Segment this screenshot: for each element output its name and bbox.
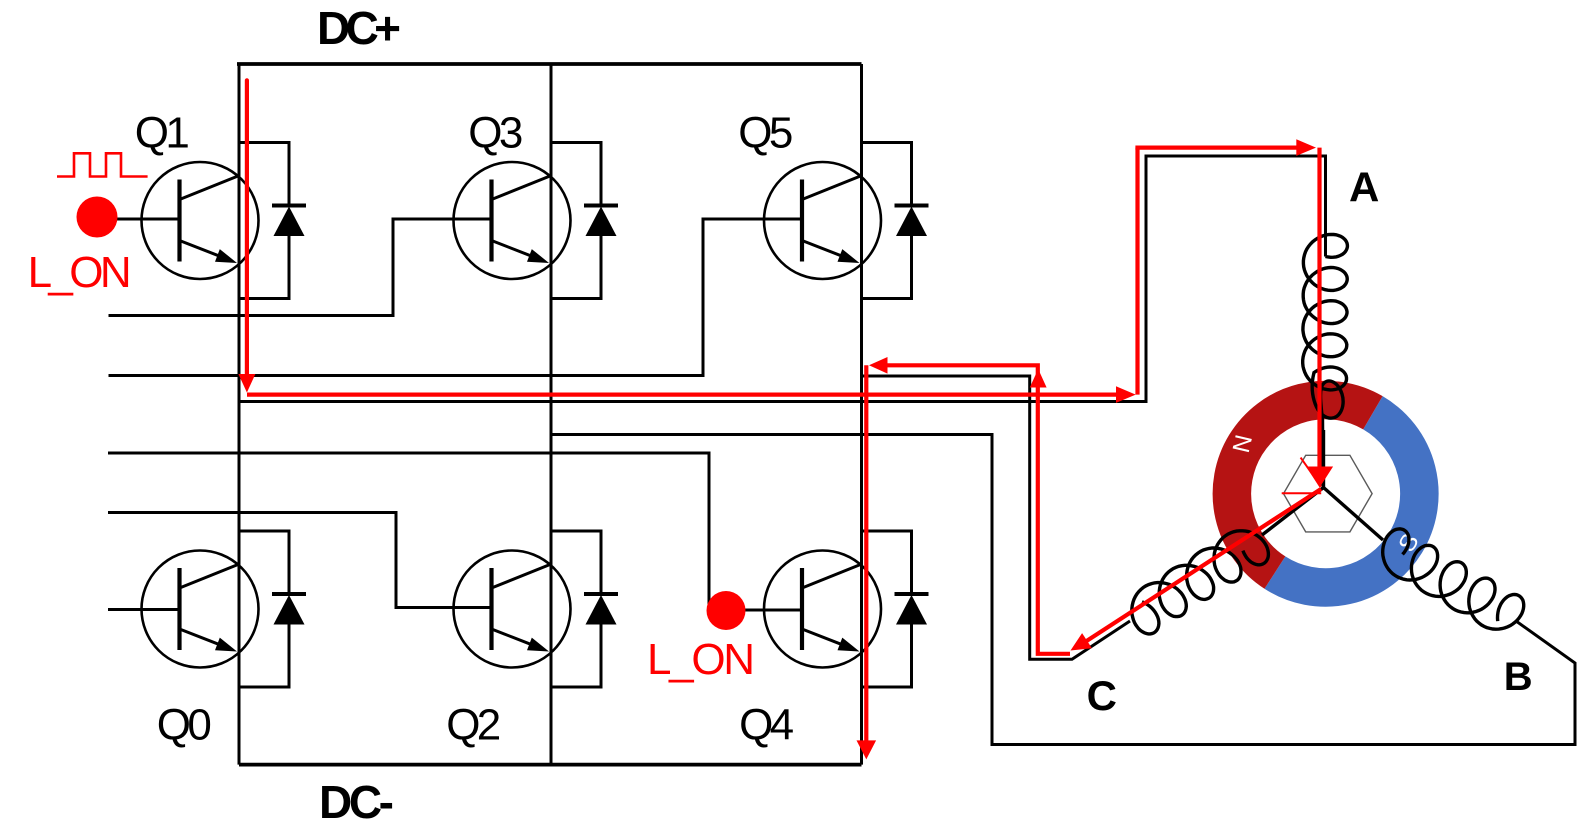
wire phase leg 3 (Q5/Q4) [860,64,863,765]
svg-text:DC-: DC- [319,776,394,825]
svg-text:C: C [1087,672,1117,719]
current path: out through coil C [1085,489,1321,642]
wire phase leg 1 (Q1/Q0) [238,64,241,765]
current path: up phase A riser [1135,148,1139,395]
transistor Q4 (NPN body) [764,551,881,668]
wire Q5 base drive [109,219,803,376]
hexagon rotor hub [1284,455,1373,532]
svg-text:Q1: Q1 [135,109,190,158]
transistor Q3 (NPN body) [454,162,571,279]
current path: right to phase A terminal [1135,146,1300,150]
coil B (phase B winding) [1383,529,1524,629]
coil A (phase A winding) [1303,234,1348,486]
svg-text:A: A [1349,164,1379,211]
diode D5 (antiparallel with Q5) [862,143,929,299]
current path: down through coil A to star point [1317,148,1321,470]
current path: down through Q4 to DC- [864,365,868,741]
wire Q1 base lead [112,218,180,221]
svg-text:Q0: Q0 [157,701,212,750]
wire DC+ top bus [237,62,862,66]
diode D1 (antiparallel with Q1) [239,143,306,299]
motor rotor ring south pole (blue) [1275,413,1419,588]
current path: C terminal to Q4 branch [875,365,1070,654]
diode D0 (antiparallel with Q0) [239,531,306,687]
wire Q4 base drive [108,453,802,610]
wire coil A to star point [1322,430,1325,488]
transistor Q0 (NPN body) [142,551,259,668]
wire star point to coil B [1324,488,1384,541]
svg-text:Q5: Q5 [738,109,793,158]
svg-text:Q4: Q4 [739,701,794,750]
current path: across to phase A riser [247,393,1122,397]
diode D3 (antiparallel with Q3) [551,143,618,299]
wire Q2 base drive [108,513,492,608]
wire phase leg 2 (Q3/Q2) [550,64,553,765]
diode D2 (antiparallel with Q2) [551,531,618,687]
wire DC- bottom bus [239,763,862,767]
coil C (phase C winding) [1132,531,1269,634]
transistor Q5 (NPN body) [764,162,881,279]
svg-text:L_ON: L_ON [28,248,132,297]
current path: DC+ down through Q1 [245,80,249,385]
svg-text:DC+: DC+ [317,2,401,54]
wire Q0 base lead [108,608,180,611]
wire phase A output [239,156,1326,402]
transistor Q1 (NPN body) [142,162,259,279]
wire phase C output [862,376,1131,659]
svg-text:Q3: Q3 [468,109,523,158]
transistor Q2 (NPN body) [454,551,571,668]
node L_ON dot (Q1 gate) [77,197,118,238]
wire Q3 base drive [109,219,492,316]
wire phase B output [551,435,1575,745]
node L_ON dot (Q4 gate) [707,591,746,630]
current path: open arrowhead at star point [1301,458,1322,487]
diode D4 (antiparallel with Q4) [862,531,929,687]
svg-text:B: B [1504,655,1533,699]
wire star point to coil C [1262,488,1324,536]
PWM pulse symbol (red) [57,153,148,176]
motor rotor ring north pole (dark red) [1232,400,1373,573]
svg-text:L_ON: L_ON [647,635,755,684]
svg-text:Q2: Q2 [446,701,501,750]
